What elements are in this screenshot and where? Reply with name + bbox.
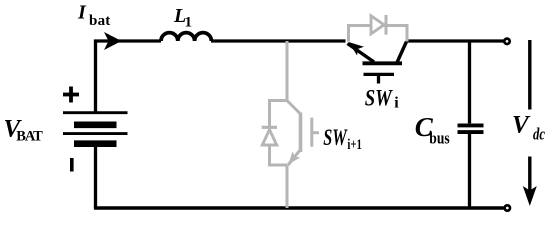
- svg-text:SW: SW: [365, 85, 393, 110]
- Vdc arrow shaft: [528, 40, 531, 191]
- capacitor Cbus bottom plate: [458, 130, 484, 134]
- SWi+1 gate stub: [312, 131, 319, 134]
- diode Di cathode bar: [385, 15, 388, 35]
- svg-text:BAT: BAT: [16, 128, 43, 144]
- svg-text:I: I: [77, 1, 87, 23]
- diode of SWi+1: triangle (outline): [262, 130, 276, 145]
- wire battery negative lead (vertical): [94, 147, 97, 208]
- diode Di (gray anti-parallel diode over SWi): [349, 15, 408, 42]
- current arrow Ibat on top-left wire: [104, 32, 122, 50]
- svg-text:bus: bus: [429, 128, 450, 147]
- wire capacitor bottom lead: [468, 134, 471, 208]
- wire capacitor top lead: [468, 41, 471, 123]
- wire top rail left segment (inductor to SWi emitter): [211, 39, 346, 42]
- svg-text:dc: dc: [533, 124, 546, 143]
- SWi emitter arrow: [349, 42, 364, 56]
- wire anti-parallel diode loop of SWi+1: [270, 101, 288, 166]
- svg-text:bat: bat: [89, 13, 110, 29]
- SWi collector diagonal: [397, 42, 407, 63]
- SWi gate bar: [364, 73, 395, 76]
- Vdc label background: [509, 110, 549, 157]
- inductor L1: [161, 33, 211, 41]
- terminal node bottom (output -): [505, 205, 510, 210]
- diode of SWi+1: cathode bar: [262, 126, 277, 129]
- terminal node top (output +): [504, 39, 509, 44]
- wire SWi+1 emitter lead to bottom rail: [286, 165, 289, 208]
- Vdc arrow head: [523, 186, 537, 206]
- capacitor Cbus top plate: [458, 123, 484, 127]
- wire diode loop over SWi: [349, 26, 408, 42]
- battery VBAT plate 3 (long thin): [63, 132, 128, 135]
- diode Di triangle (outline): [371, 16, 384, 34]
- wire bottom rail: [94, 206, 504, 210]
- SWi+1 gate bar: [310, 118, 313, 147]
- wire battery positive lead (vertical, node A corner): [96, 41, 162, 113]
- battery VBAT plate 2 (short thick): [74, 122, 117, 129]
- battery plus sign: [63, 87, 79, 103]
- battery minus sign (vertical tick): [70, 158, 74, 172]
- SWi+1 collector diagonal: [287, 101, 301, 115]
- SWi emitter diagonal: [348, 44, 375, 63]
- SWi+1 emitter diagonal: [288, 150, 301, 166]
- svg-text:i+1: i+1: [347, 137, 362, 153]
- wire SWi+1 collector lead from top rail: [286, 41, 289, 101]
- transistor SWi+1 (gray IGBT, off-state): [270, 41, 320, 208]
- SWi+1 emitter arrow: [288, 151, 300, 164]
- svg-text:V: V: [512, 112, 531, 139]
- wire top rail right segment (SWi collector to output terminal): [406, 39, 504, 42]
- SWi+1 channel bar: [299, 113, 303, 153]
- battery VBAT plate 4 (short thick, bottom): [74, 140, 117, 147]
- svg-text:i: i: [394, 94, 399, 111]
- battery VBAT plate 1 (long thin, top): [63, 111, 128, 114]
- transistor SWi (black IGBT, on top rail): [348, 42, 407, 84]
- svg-text:1: 1: [185, 15, 193, 31]
- SWi channel bar: [363, 61, 403, 65]
- svg-text:SW: SW: [323, 125, 348, 150]
- SWi gate stub: [377, 74, 380, 83]
